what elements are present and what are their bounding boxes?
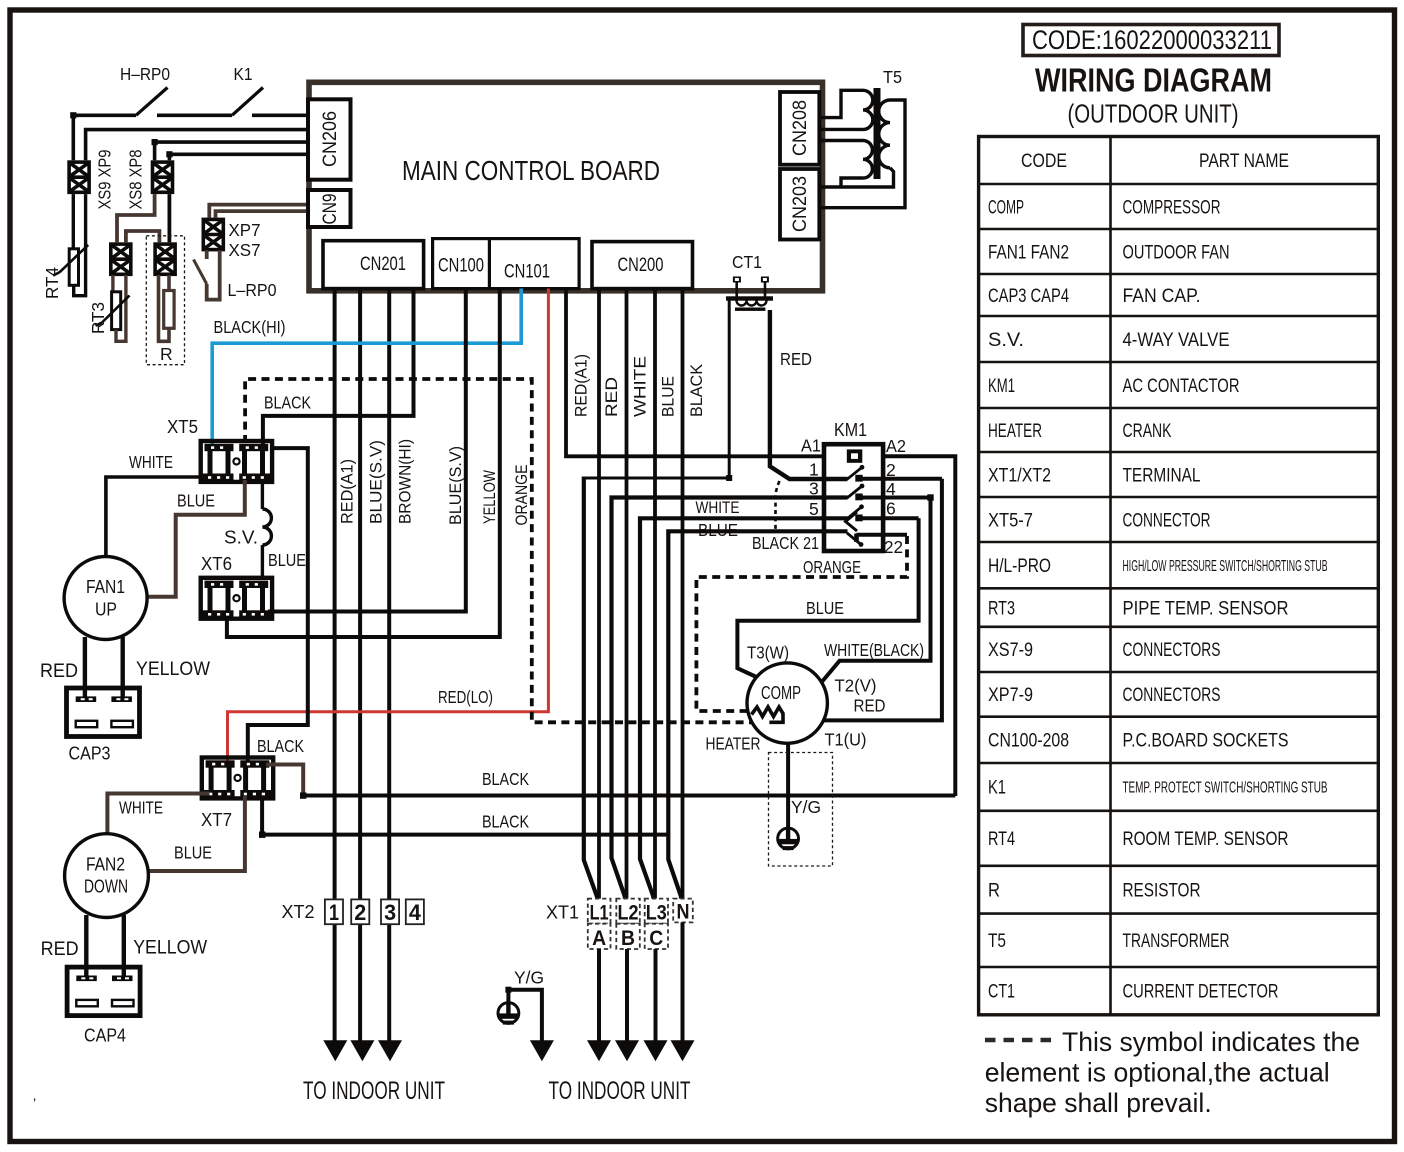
svg-text:MAIN CONTROL BOARD: MAIN CONTROL BOARD [402, 155, 660, 186]
svg-text:CONNECTOR: CONNECTOR [1123, 510, 1211, 531]
wire BLUE fan1 to XT5 (brown) [149, 480, 245, 597]
dashed optional box comp ground [769, 753, 833, 867]
wire WHITE fan2 to XT7 (brown) [107, 794, 209, 835]
svg-text:L–RP0: L–RP0 [228, 280, 277, 300]
svg-text:3: 3 [384, 900, 396, 925]
svg-text:KM1: KM1 [834, 419, 867, 440]
wire RED(LO) [228, 289, 549, 764]
svg-text:CODE: CODE [1021, 151, 1067, 172]
svg-text:TEMP. PROTECT SWITCH/SHORTING: TEMP. PROTECT SWITCH/SHORTING STUB [1123, 780, 1328, 797]
svg-text:HEATER: HEATER [706, 734, 761, 754]
svg-text:RED(LO): RED(LO) [438, 687, 493, 707]
svg-text:Y/G: Y/G [791, 797, 821, 817]
svg-text:H–RP0: H–RP0 [120, 64, 170, 84]
svg-text:BLUE: BLUE [177, 491, 215, 511]
terminal XT2-1 [325, 899, 343, 924]
heater resistor inside COMP [752, 707, 784, 722]
svg-text:6: 6 [886, 499, 896, 519]
wire COMP T1 to ground [786, 743, 790, 827]
svg-text:4: 4 [409, 900, 422, 925]
svg-text:PIPE TEMP. SENSOR: PIPE TEMP. SENSOR [1123, 598, 1289, 619]
capacitor CAP4 [67, 967, 140, 1016]
svg-text:RED: RED [854, 696, 886, 716]
terminal XT2-4 [406, 899, 424, 924]
wire BLACK bus1 (XT7/T1/A2) [303, 794, 955, 798]
KM1 contact 3-4 [809, 479, 934, 501]
svg-text:FAN1: FAN1 [86, 576, 125, 597]
terminal XT1 L3 [645, 899, 668, 924]
parts table [979, 137, 1379, 1015]
svg-text:CODE:16022000033211: CODE:16022000033211 [1032, 25, 1272, 55]
svg-text:KM1: KM1 [988, 376, 1015, 397]
svg-text:’: ’ [33, 1095, 36, 1111]
wire BLUE fan2 to XT7 (brown) [150, 796, 245, 871]
svg-text:H/L-PRO: H/L-PRO [988, 556, 1051, 577]
dashed optional box around R [146, 236, 184, 365]
svg-text:CN100-208: CN100-208 [988, 731, 1069, 752]
svg-text:RED(A1): RED(A1) [338, 459, 357, 524]
svg-text:4-WAY VALVE: 4-WAY VALVE [1123, 330, 1230, 351]
svg-text:ROOM TEMP. SENSOR: ROOM TEMP. SENSOR [1123, 829, 1289, 850]
svg-text:R: R [988, 881, 1000, 902]
svg-text:22: 22 [884, 537, 903, 557]
compressor COMP [747, 663, 827, 743]
svg-text:OUTDOOR FAN: OUTDOOR FAN [1123, 242, 1230, 263]
svg-text:CN101: CN101 [504, 262, 550, 283]
svg-text:BROWN(HI): BROWN(HI) [396, 439, 415, 524]
svg-text:B: B [621, 927, 635, 950]
svg-text:HEATER: HEATER [988, 421, 1042, 442]
arrow ground mid [530, 1040, 554, 1061]
svg-text:BLACK: BLACK [482, 812, 529, 832]
svg-text:CN9: CN9 [320, 194, 341, 225]
svg-text:T1(U): T1(U) [825, 730, 867, 750]
svg-text:RED: RED [603, 377, 621, 417]
svg-text:CAP3: CAP3 [69, 743, 111, 764]
svg-text:COMP: COMP [988, 197, 1024, 218]
svg-text:RT3: RT3 [88, 302, 108, 334]
svg-text:C: C [649, 927, 663, 950]
svg-text:This symbol indicates the: This symbol indicates the [1062, 1027, 1360, 1057]
svg-text:WHITE(BLACK): WHITE(BLACK) [824, 640, 924, 660]
wire XT1 L3 down [654, 949, 658, 1041]
terminal XT1 N [673, 899, 693, 923]
svg-text:HIGH/LOW PRESSURE SWITCH/SHORT: HIGH/LOW PRESSURE SWITCH/SHORTING STUB [1123, 558, 1328, 575]
arrow XT2-2 [350, 1040, 374, 1061]
wire CN200 pin5 BLACK to XT1 N [681, 289, 685, 900]
ground symbol mid [498, 1002, 519, 1025]
svg-text:K1: K1 [988, 778, 1006, 799]
wire KM1 pin21 BLACK to XT1 N feed [668, 531, 847, 899]
svg-text:CN200: CN200 [618, 255, 664, 276]
svg-text:CT1: CT1 [988, 982, 1015, 1003]
svg-text:XT5-7: XT5-7 [988, 510, 1033, 531]
arrow XT1 L3 [644, 1040, 668, 1061]
svg-text:YELLOW: YELLOW [136, 659, 210, 680]
KM1 contact 1-2 [809, 460, 942, 482]
svg-text:A2: A2 [886, 436, 906, 456]
svg-text:R: R [160, 344, 173, 364]
KM1 contact 5-6 [809, 499, 919, 532]
wire CN200 pin1 RED(A1) to KM1 A1 [566, 289, 824, 457]
wire between lower connectors [126, 231, 159, 242]
svg-text:(OUTDOOR UNIT): (OUTDOOR UNIT) [1068, 99, 1239, 129]
wire CN201 pin4 BLACK to XT5 [263, 289, 414, 446]
svg-text:XS8 XP8: XS8 XP8 [126, 150, 146, 210]
svg-text:RT3: RT3 [988, 598, 1015, 619]
svg-text:5: 5 [809, 499, 819, 519]
svg-text:element is optional,the actual: element is optional,the actual [985, 1058, 1330, 1088]
ground Y/G mid [505, 968, 544, 1042]
svg-text:S.V.: S.V. [224, 527, 258, 548]
svg-text:CN203: CN203 [790, 176, 811, 232]
svg-text:XT1: XT1 [546, 902, 579, 923]
svg-text:A: A [592, 927, 606, 950]
KM1 coil square [847, 449, 863, 462]
svg-text:TO INDOOR UNIT: TO INDOOR UNIT [549, 1077, 691, 1105]
wire CN201 pin3 to XT2-3 [387, 289, 391, 1042]
svg-text:BLACK: BLACK [482, 769, 529, 789]
svg-text:S.V.: S.V. [988, 330, 1024, 351]
wire XS8 left leg to CN206 [155, 142, 309, 160]
socket CN201 [323, 241, 424, 289]
svg-text:1: 1 [329, 900, 339, 925]
connector XS9/XP9 [69, 162, 89, 192]
svg-text:CN201: CN201 [360, 254, 406, 275]
connector XT7 [202, 758, 273, 799]
svg-text:FAN CAP.: FAN CAP. [1123, 286, 1201, 307]
wire CT1 left leg to XT1 L1 feed [584, 300, 729, 478]
svg-text:XT2: XT2 [282, 901, 315, 922]
svg-text:BLACK: BLACK [257, 736, 304, 756]
svg-text:CAP3 CAP4: CAP3 CAP4 [988, 286, 1069, 307]
svg-text:BLACK: BLACK [752, 533, 799, 553]
svg-text:CONNECTORS: CONNECTORS [1123, 640, 1221, 661]
svg-text:XT6: XT6 [201, 553, 232, 574]
arrow XT1 N [671, 1040, 695, 1061]
svg-text:T5: T5 [883, 67, 902, 87]
connector XT6 [201, 578, 272, 619]
svg-text:BLUE(S.V): BLUE(S.V) [367, 440, 386, 524]
svg-text:RT4: RT4 [42, 267, 62, 299]
wire XS9 right leg to CN206 [86, 130, 309, 161]
wire KM1 A2 to T1 bus [883, 456, 955, 796]
svg-text:BLUE: BLUE [806, 598, 844, 618]
svg-text:K1: K1 [234, 64, 253, 84]
svg-text:RT4: RT4 [988, 829, 1015, 850]
svg-text:T3(W): T3(W) [747, 643, 789, 663]
capacitor CAP3 [67, 688, 140, 737]
wire CN200 pin2 RED to XT1 L1 [597, 289, 601, 900]
svg-text:P.C.BOARD SOCKETS: P.C.BOARD SOCKETS [1123, 731, 1289, 752]
arrow XT1 L2 [615, 1040, 639, 1061]
svg-text:XT7: XT7 [201, 809, 232, 830]
wire KM1 pin3 WHITE to XT1 L2 feed [612, 498, 848, 900]
wire KM1 pin22 dashed ORANGE to heater [696, 536, 907, 711]
wire YELLOW from CN101 to XT6 [227, 289, 500, 638]
svg-text:T2(V): T2(V) [835, 676, 877, 696]
wire KM1 pin6 to COMP T3 BLUE [737, 518, 918, 677]
wire XS8 to lower connector pair [117, 194, 155, 242]
svg-text:BLUE: BLUE [268, 550, 306, 570]
connector of R branch [155, 244, 175, 274]
svg-text:2: 2 [354, 900, 366, 925]
svg-text:XP7-9: XP7-9 [988, 685, 1033, 706]
svg-text:RESISTOR: RESISTOR [1123, 881, 1201, 902]
valve coil S.V. [262, 480, 271, 578]
svg-text:TRANSFORMER: TRANSFORMER [1123, 931, 1230, 952]
terminal XT1 L2 [616, 899, 640, 924]
terminal XT2-2 [351, 899, 369, 924]
socket CN100/CN101 [433, 239, 579, 289]
svg-text:CURRENT DETECTOR: CURRENT DETECTOR [1123, 982, 1279, 1003]
svg-text:L1: L1 [590, 902, 609, 925]
wire XT7 top right to BLACK bus1 [266, 765, 303, 796]
arrow XT2-3 [378, 1040, 402, 1061]
wire FAN1 to CAP3 left [83, 637, 87, 699]
svg-text:CN100: CN100 [438, 256, 484, 277]
code box [1023, 25, 1279, 56]
arrow XT1 L1 [587, 1040, 611, 1061]
svg-text:XT1/XT2: XT1/XT2 [988, 465, 1051, 486]
svg-text:XS7-9: XS7-9 [988, 640, 1033, 661]
svg-text:T5: T5 [988, 931, 1006, 952]
svg-text:BLUE(S.V): BLUE(S.V) [446, 446, 465, 525]
wire XT1 L2 down [625, 949, 629, 1041]
svg-text:COMP: COMP [761, 682, 801, 703]
svg-text:RED: RED [780, 349, 812, 369]
wire XT5 side to XT7 feed BLACK [248, 448, 308, 763]
svg-text:FAN1 FAN2: FAN1 FAN2 [988, 242, 1069, 263]
svg-text:shape shall prevail.: shape shall prevail. [985, 1088, 1212, 1118]
svg-text:ORANGE: ORANGE [512, 465, 531, 526]
wire XT1 L1 down [597, 949, 601, 1041]
wire top H-RP0/K1 to CN206 [73, 115, 309, 160]
svg-text:A1: A1 [801, 436, 821, 456]
wire CN200 pin4 BLUE to XT1 L3 [653, 289, 657, 900]
svg-text:BLACK: BLACK [688, 364, 706, 417]
svg-text:1: 1 [809, 460, 819, 480]
KM1 linkage dashes [776, 481, 780, 531]
connector XT5 [201, 441, 272, 482]
svg-text:Y/G: Y/G [514, 968, 544, 988]
svg-text:21: 21 [803, 533, 819, 553]
wire KM1 pin5 BLUE to XT1 L3 feed [640, 518, 848, 899]
svg-text:L2: L2 [618, 902, 639, 925]
terminal XT1 B [616, 924, 640, 949]
svg-text:PART NAME: PART NAME [1199, 151, 1289, 172]
svg-text:RED: RED [41, 939, 79, 960]
svg-text:CRANK: CRANK [1123, 421, 1172, 442]
socket CN208 [780, 92, 819, 165]
terminal XT1 L1 [588, 899, 611, 924]
wire FAN1 to CAP3 right [120, 637, 124, 699]
wire BLACK(HI) blue [212, 289, 521, 446]
svg-text:BLUE: BLUE [660, 376, 678, 417]
svg-text:YELLOW: YELLOW [480, 470, 499, 524]
svg-text:2: 2 [886, 460, 896, 480]
KM1 contact 21-22 [752, 533, 907, 557]
svg-text:DOWN: DOWN [84, 876, 128, 897]
terminal XT1 C [645, 924, 668, 949]
svg-text:YELLOW: YELLOW [133, 938, 207, 959]
svg-text:TERMINAL: TERMINAL [1123, 465, 1201, 486]
wire KM1 pin4 to COMP T2 WHITE(BLACK) [821, 498, 931, 684]
svg-text:CN206: CN206 [320, 111, 341, 167]
connector XP7/XS7 [203, 219, 223, 249]
switch K1 [232, 88, 263, 116]
svg-text:TO INDOOR UNIT: TO INDOOR UNIT [303, 1077, 445, 1105]
svg-text:BLACK: BLACK [264, 393, 311, 413]
wire XS8 right leg to CN206 [169, 154, 309, 160]
contactor KM1 [824, 444, 883, 551]
wires CN9 to XP7 [209, 205, 309, 218]
svg-text:RED: RED [40, 661, 78, 682]
svg-text:XS9 XP9: XS9 XP9 [95, 150, 115, 210]
wire XT1 N down [681, 922, 685, 1041]
svg-text:COMPRESSOR: COMPRESSOR [1123, 197, 1221, 218]
svg-text:WHITE: WHITE [119, 798, 163, 818]
thermistor RT3 loop [96, 275, 130, 341]
svg-text:XP7: XP7 [229, 220, 261, 240]
wire CN200 pin3 WHITE to XT1 L2 [625, 289, 629, 900]
connector XS8/XP8 [153, 162, 173, 192]
svg-text:4: 4 [886, 479, 896, 499]
svg-text:FAN2: FAN2 [86, 854, 125, 875]
socket CN200 [592, 242, 693, 289]
svg-text:XT5: XT5 [167, 416, 198, 437]
ground symbol comp [778, 828, 799, 851]
wire WHITE fan1 to XT5 [106, 477, 199, 558]
svg-text:CT1: CT1 [732, 252, 762, 272]
svg-text:CAP4: CAP4 [84, 1025, 126, 1046]
terminal XT2-3 [381, 899, 399, 924]
wire BLUE(S.V) from CN100 to XT6 [268, 289, 466, 612]
motor FAN2 [65, 834, 149, 918]
svg-text:N: N [677, 901, 690, 924]
main control board [309, 82, 823, 290]
thermistor RT4 loop [53, 194, 88, 296]
svg-text:XS7: XS7 [229, 240, 261, 260]
terminal XT1 A [588, 924, 611, 949]
legend dashed sample [985, 1038, 1053, 1043]
wire FAN2 to CAP4 left [84, 915, 88, 977]
wire CT1 right leg to KM1 pin1 [770, 310, 848, 479]
svg-text:RED(A1): RED(A1) [573, 354, 591, 417]
resistor R loop [159, 275, 175, 341]
svg-text:BLUE: BLUE [174, 843, 212, 863]
motor FAN1 [64, 557, 147, 640]
svg-text:BLACK(HI): BLACK(HI) [214, 317, 286, 337]
wire CN201 pin2 to XT2-2 [358, 289, 362, 1042]
transformer T5 [820, 90, 905, 207]
wire CN201 pin1 to XT2-1 [333, 289, 337, 1042]
wire ORANGE dashed optional [245, 379, 769, 722]
svg-text:3: 3 [809, 479, 819, 499]
svg-text:AC CONTACTOR: AC CONTACTOR [1123, 376, 1240, 397]
svg-text:WHITE: WHITE [696, 499, 740, 517]
wire FAN2 to CAP4 right [122, 915, 126, 977]
svg-text:CONNECTORS: CONNECTORS [1123, 685, 1221, 706]
switch H-RP0 [136, 88, 168, 116]
svg-text:WHITE: WHITE [632, 356, 650, 417]
svg-text:WHITE: WHITE [129, 452, 173, 472]
wire XT7 bottom right to BLACK bus2 [262, 796, 668, 835]
svg-text:ORANGE: ORANGE [803, 557, 861, 577]
svg-text:CN208: CN208 [790, 100, 811, 156]
socket CN203 [780, 169, 819, 240]
arrow XT2-1 [323, 1040, 347, 1061]
socket CN206 [308, 99, 351, 179]
wire KM1 pin2 to COMP RED [823, 479, 942, 721]
svg-text:L3: L3 [646, 902, 667, 925]
svg-text:UP: UP [95, 599, 117, 620]
svg-text:WIRING DIAGRAM: WIRING DIAGRAM [1035, 62, 1272, 99]
socket CN9 [308, 190, 351, 227]
switch L-RP0 loop [194, 250, 220, 300]
connector below XS8 (RT3 branch) [111, 244, 131, 274]
